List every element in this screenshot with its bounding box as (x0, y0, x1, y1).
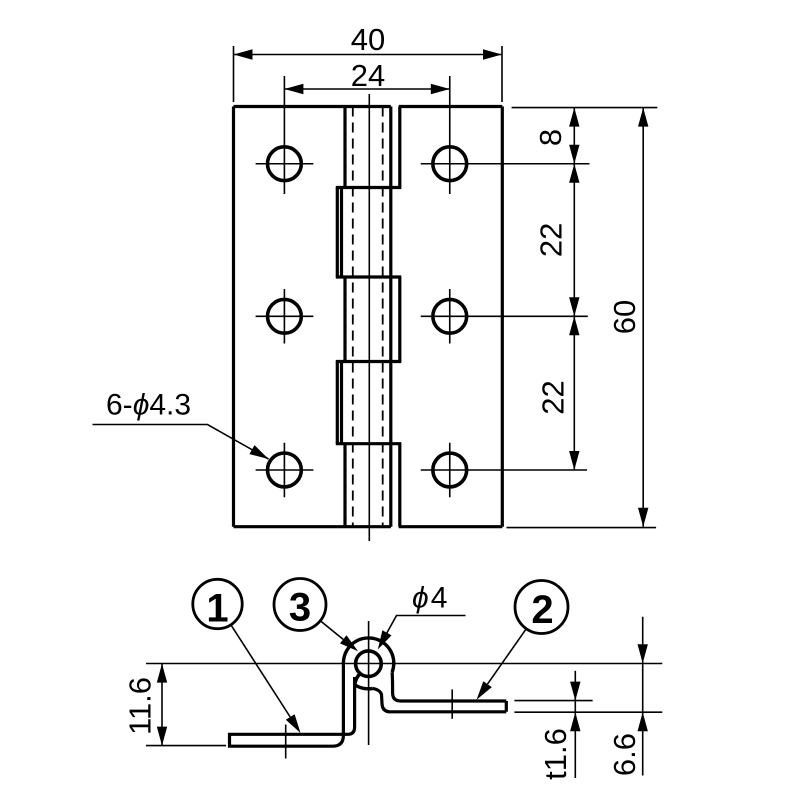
svg-text:22: 22 (536, 380, 571, 414)
svg-text:60: 60 (607, 300, 642, 334)
svg-text:t1.6: t1.6 (538, 728, 573, 780)
svg-text:40: 40 (351, 22, 385, 57)
svg-text:11.6: 11.6 (123, 677, 158, 735)
svg-text:1: 1 (206, 587, 228, 631)
svg-text:8: 8 (533, 129, 568, 146)
svg-text:2: 2 (531, 588, 553, 632)
svg-text:24: 24 (351, 58, 385, 93)
svg-text:6-ϕ4.3: 6-ϕ4.3 (106, 389, 191, 422)
svg-text:3: 3 (289, 586, 311, 630)
svg-text:22: 22 (533, 223, 568, 257)
svg-text:6.6: 6.6 (607, 733, 642, 776)
